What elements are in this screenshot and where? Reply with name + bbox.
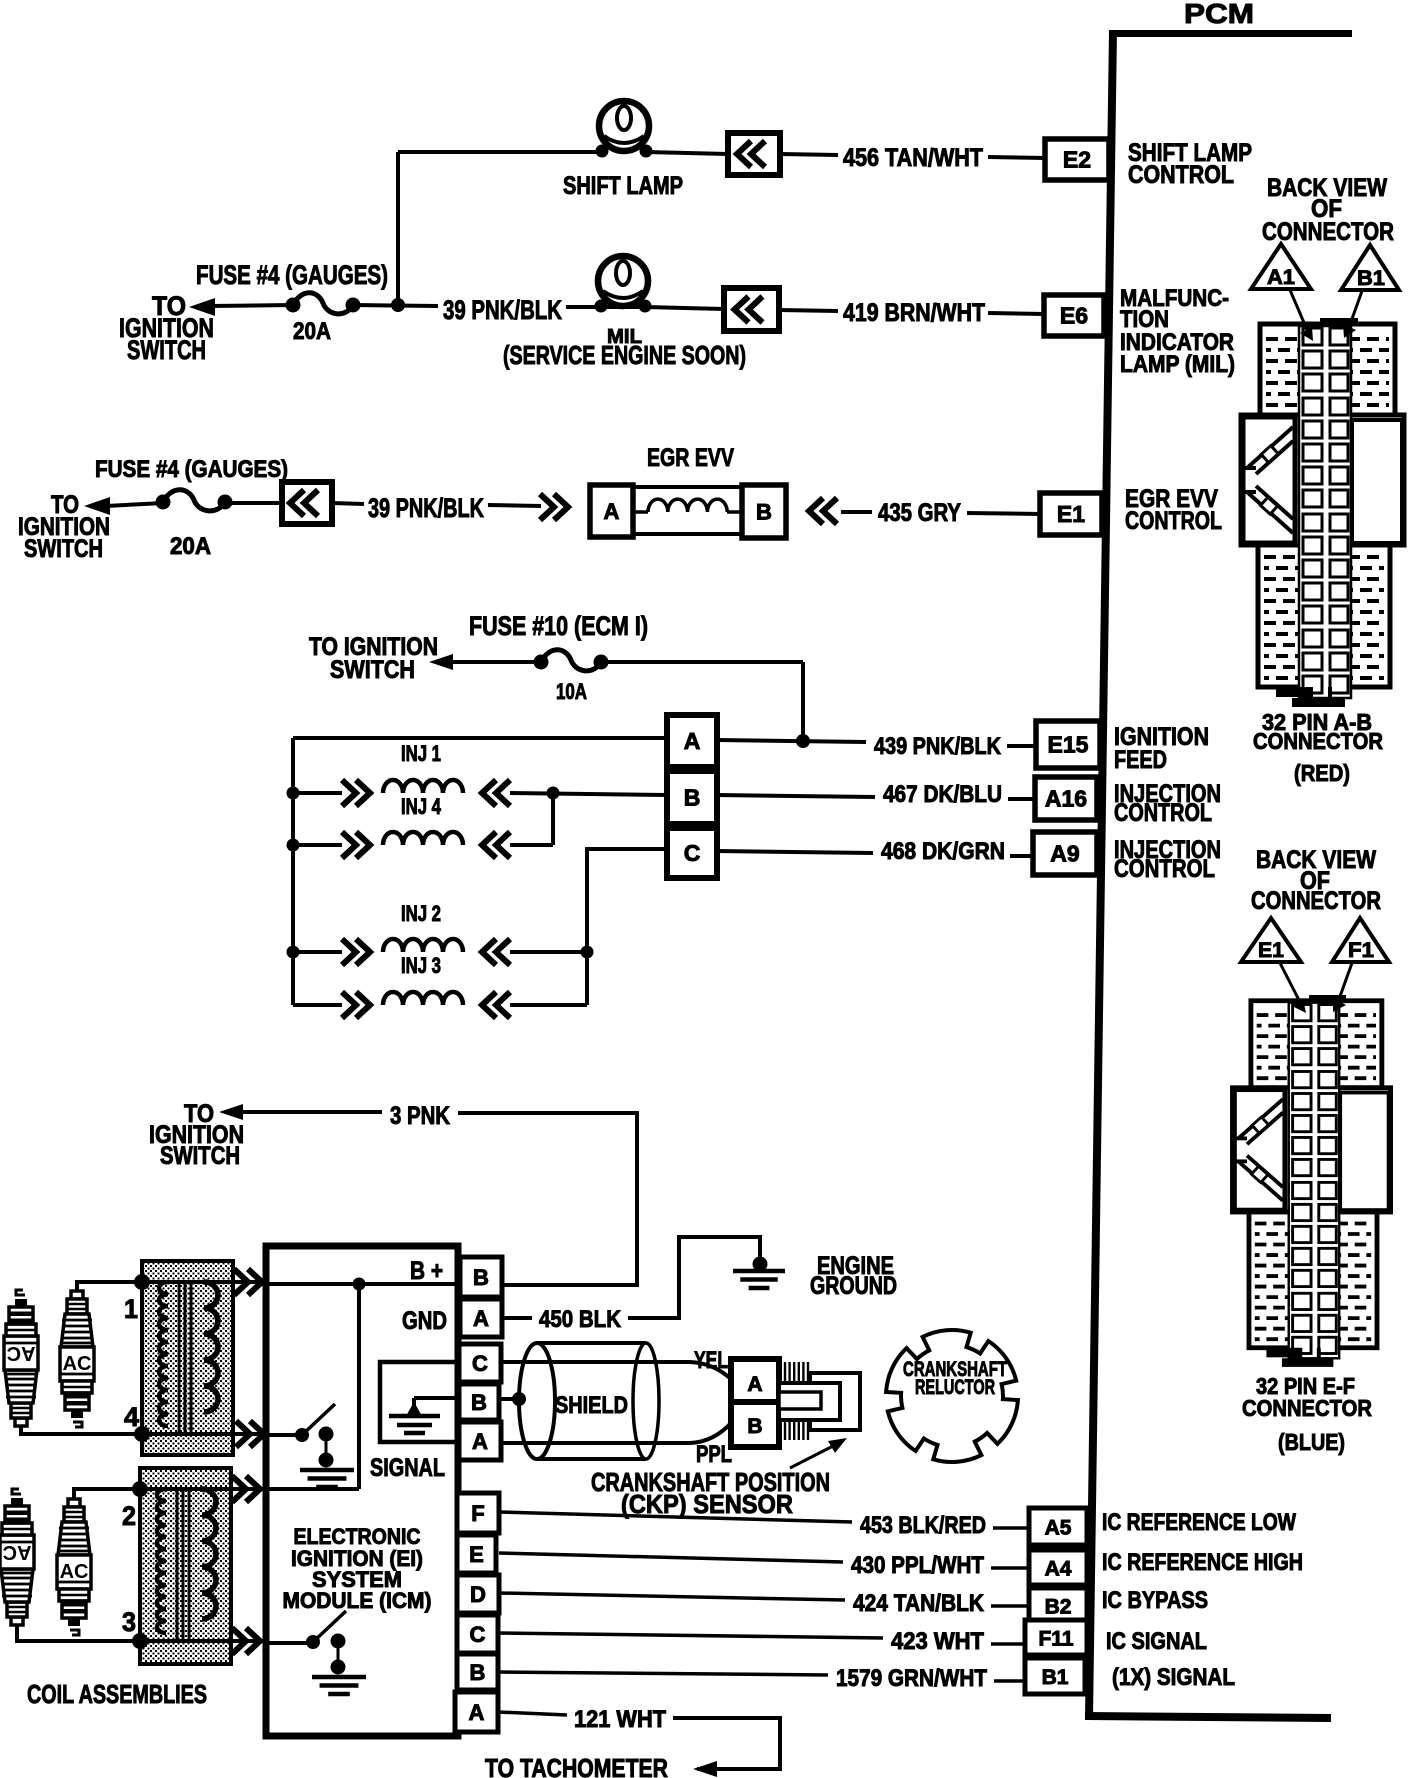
svg-text:B: B: [470, 1660, 486, 1685]
svg-text:20A: 20A: [170, 533, 211, 560]
inline connector coil2 top: [232, 1476, 260, 1502]
svg-text:A: A: [684, 728, 701, 754]
wire fuse to connector row2: [225, 501, 282, 505]
wire 121 WHT left: [498, 1712, 567, 1715]
wire arrow to fuse row2: [106, 503, 163, 506]
svg-text:D: D: [470, 1582, 486, 1607]
svg-text:E1: E1: [1057, 501, 1085, 527]
svg-text:A: A: [473, 1306, 489, 1331]
svg-text:YEL: YEL: [694, 1347, 728, 1374]
svg-text:IC REFERENCE HIGH: IC REFERENCE HIGH: [1102, 1549, 1303, 1576]
svg-text:FEED: FEED: [1114, 746, 1167, 774]
wire 467 DK/BLU: [717, 795, 875, 797]
wire 419 BRN/WHT left: [779, 310, 838, 311]
svg-text:A4: A4: [1045, 1558, 1072, 1581]
PCM top edge: [1109, 30, 1352, 37]
arrow to ignition switch row1: [189, 298, 215, 316]
wire C pin branch: [587, 849, 667, 1005]
ICM pin B mid: [459, 1384, 499, 1420]
svg-text:10A: 10A: [556, 679, 587, 704]
svg-text:C: C: [470, 1622, 486, 1647]
svg-text:468 DK/GRN: 468 DK/GRN: [881, 838, 1005, 865]
pin E6: [1044, 295, 1104, 336]
pin B2: [1029, 1588, 1087, 1623]
wire 435 GRY right: [967, 513, 1041, 514]
svg-text:B: B: [471, 1390, 487, 1415]
inline connector coil1 top: [234, 1269, 262, 1295]
wire fuse10 to drop: [601, 660, 803, 664]
svg-text:3 PNK: 3 PNK: [390, 1102, 450, 1130]
svg-text:20A: 20A: [293, 318, 331, 345]
ICM pin C mid: [459, 1344, 501, 1382]
svg-text:(BLUE): (BLUE): [1278, 1429, 1345, 1455]
wire 424 TAN/BLK: [499, 1593, 845, 1600]
wire 450 BLK to engine ground: [628, 1237, 760, 1318]
leader A1: [1290, 290, 1308, 332]
svg-text:467 DK/BLU: 467 DK/BLU: [883, 781, 1002, 808]
svg-text:CONNECTOR: CONNECTOR: [1253, 728, 1383, 754]
wire label to MIL: [566, 305, 602, 309]
svg-text:B1: B1: [1357, 267, 1385, 290]
svg-text:A16: A16: [1045, 786, 1087, 812]
svg-text:424 TAN/BLK: 424 TAN/BLK: [853, 1590, 985, 1617]
crankshaft reluctor: [886, 1330, 1018, 1462]
injector INJ2: [293, 950, 342, 954]
svg-text:IC REFERENCE LOW: IC REFERENCE LOW: [1102, 1509, 1296, 1536]
svg-text:E: E: [469, 1542, 484, 1567]
inline connector shift lamp: [728, 133, 780, 175]
spark plug 2: [60, 1291, 94, 1427]
pin B1: [1025, 1658, 1085, 1694]
svg-text:COIL ASSEMBLIES: COIL ASSEMBLIES: [27, 1679, 207, 1709]
svg-text:A: A: [604, 499, 620, 524]
wire 121 WHT to tachometer: [673, 1718, 780, 1769]
svg-text:453 BLK/RED: 453 BLK/RED: [860, 1512, 986, 1539]
svg-text:TO TACHOMETER: TO TACHOMETER: [485, 1753, 668, 1778]
wire INJ4 to INJ1 junction: [551, 793, 555, 845]
ICM pin A top: [460, 1299, 502, 1337]
junction fuse10 on 439: [717, 740, 866, 742]
svg-text:C: C: [472, 1351, 488, 1376]
svg-text:CONTROL: CONTROL: [1114, 799, 1212, 827]
svg-text:SWITCH: SWITCH: [330, 656, 415, 684]
svg-text:A1: A1: [1267, 266, 1295, 289]
callout triangle B1: [1341, 245, 1399, 290]
svg-text:PCM: PCM: [1184, 0, 1254, 29]
switch S1 to ground: [295, 1428, 309, 1442]
svg-text:E15: E15: [1048, 732, 1089, 758]
wire plug4 to coil2: [74, 1489, 140, 1500]
leader E1: [1280, 963, 1301, 1004]
svg-text:RELUCTOR: RELUCTOR: [915, 1376, 995, 1399]
svg-text:456 TAN/WHT: 456 TAN/WHT: [843, 144, 983, 172]
wire shield drain B pin: [499, 1397, 519, 1401]
injector INJ4: [293, 843, 342, 847]
injector INJ1: [293, 791, 342, 795]
wire 1579 GRN/WHT: [499, 1672, 828, 1675]
inline connector MIL: [724, 288, 779, 331]
pin A9: [1033, 832, 1097, 875]
svg-text:F11: F11: [1038, 1628, 1073, 1651]
callout triangle A1: [1251, 244, 1311, 289]
svg-text:INJ 4: INJ 4: [401, 794, 442, 819]
svg-text:(SERVICE ENGINE SOON): (SERVICE ENGINE SOON): [503, 340, 746, 370]
switch S2 to ground: [306, 1635, 320, 1649]
wire 423 WHT: [499, 1633, 883, 1638]
svg-text:INJ 3: INJ 3: [401, 953, 441, 978]
svg-text:3: 3: [122, 1607, 136, 1637]
wire YEL from C pin: [501, 1360, 690, 1364]
svg-text:B1: B1: [1042, 1666, 1069, 1689]
fuse F4 20A row2: [156, 495, 171, 510]
PCM boundary line: [1085, 30, 1117, 1717]
wire 468 DK/GRN: [717, 851, 873, 853]
pin F11: [1025, 1620, 1087, 1655]
PCM bottom edge: [1085, 1712, 1331, 1722]
svg-text:A: A: [747, 1373, 762, 1396]
svg-text:SHIFT LAMP: SHIFT LAMP: [563, 172, 683, 200]
wire 3PNK left: [241, 1110, 382, 1114]
svg-text:CONTROL: CONTROL: [1114, 855, 1215, 883]
svg-text:FUSE #4 (GAUGES): FUSE #4 (GAUGES): [196, 260, 388, 290]
junction node 39 PNK/BLK: [391, 298, 405, 312]
svg-text:121 WHT: 121 WHT: [574, 1706, 666, 1733]
wire arrow to fuse row1: [211, 305, 293, 306]
inline connector coil2 bottom: [232, 1628, 260, 1654]
svg-text:B2: B2: [1045, 1596, 1072, 1619]
svg-text:F1: F1: [1348, 939, 1374, 962]
spark plug 3: [0, 1489, 34, 1625]
ICM pin A bot: [455, 1692, 498, 1732]
svg-text:GND: GND: [402, 1307, 447, 1335]
svg-text:IC BYPASS: IC BYPASS: [1102, 1587, 1208, 1614]
svg-text:E6: E6: [1060, 303, 1088, 329]
wire B+ to coil2 primary: [357, 1284, 361, 1489]
wire 3PNK right: [458, 1113, 637, 1285]
pin A16: [1035, 777, 1097, 820]
svg-text:C: C: [684, 840, 701, 866]
wire plug2 to coil1: [77, 1282, 142, 1292]
injector INJ3: [293, 1003, 342, 1007]
svg-text:B +: B +: [410, 1257, 443, 1285]
callout triangle E1: [1241, 918, 1301, 962]
wire 430 PPL/WHT: [499, 1553, 843, 1562]
arrow to ignition switch row2: [84, 497, 110, 515]
injector connector B pin: [667, 771, 717, 824]
callout triangle F1: [1332, 918, 1389, 962]
inline connector coil1 bottom: [236, 1421, 264, 1447]
pin A4: [1029, 1550, 1087, 1585]
svg-text:419 BRN/WHT: 419 BRN/WHT: [843, 299, 985, 327]
engine ground: [753, 1257, 768, 1272]
wire shift lamp feed riser: [396, 152, 400, 305]
svg-text:E1: E1: [1258, 939, 1284, 962]
coil2 top wire: [140, 1487, 268, 1491]
injector connector A pin: [667, 715, 717, 767]
coil1 bottom wire: [142, 1432, 268, 1436]
svg-text:(RED): (RED): [1294, 760, 1350, 786]
wire PPL from A pin: [501, 1441, 690, 1445]
shield cylinder: [537, 1341, 646, 1345]
svg-text:430 PPL/WHT: 430 PPL/WHT: [851, 1552, 984, 1579]
left injector bus: [291, 738, 295, 1005]
svg-text:A: A: [469, 1700, 485, 1725]
pin A5: [1029, 1508, 1087, 1545]
coil assembly 1-4: [142, 1261, 233, 1455]
wire plug1 to coil1: [21, 1427, 142, 1434]
svg-text:GROUND: GROUND: [810, 1272, 897, 1300]
inline connector EGR right: [809, 498, 837, 524]
lamp MIL: [598, 256, 648, 306]
shift lamp LP1: [599, 101, 649, 151]
coil assembly 2-3: [140, 1468, 231, 1664]
ICM pin C bot: [457, 1615, 498, 1653]
wire riser to shift lamp: [398, 150, 602, 154]
CKP pointer arrow: [790, 1446, 833, 1468]
wire fuse to label row1: [353, 305, 438, 306]
svg-text:2: 2: [122, 1501, 136, 1531]
ICM pin E: [457, 1535, 496, 1573]
svg-text:B: B: [473, 1265, 489, 1290]
svg-text:LAMP (MIL): LAMP (MIL): [1120, 351, 1235, 378]
wire coil1 secondary return: [268, 1433, 302, 1437]
wire MIL to connector: [645, 307, 724, 309]
svg-text:439 PNK/BLK: 439 PNK/BLK: [874, 733, 1002, 760]
injector connector C pin: [667, 828, 717, 878]
wire label to EGR: [488, 505, 541, 506]
pin E1: [1040, 493, 1102, 535]
pin E15: [1036, 721, 1100, 768]
inline connector row2: [282, 482, 332, 524]
svg-text:B: B: [684, 785, 701, 811]
wire shift lamp to connector: [646, 152, 728, 154]
svg-text:CONTROL: CONTROL: [1125, 507, 1222, 535]
svg-text:CONNECTOR: CONNECTOR: [1242, 1395, 1372, 1421]
svg-text:CONTROL: CONTROL: [1128, 161, 1234, 189]
wire plug3 to coil2: [17, 1626, 140, 1641]
wire 456 TAN/WHT right: [988, 157, 1046, 158]
arrow to ignition switch fuse10: [429, 654, 453, 670]
wire A pin to left bus: [293, 736, 667, 740]
svg-text:SWITCH: SWITCH: [24, 535, 103, 563]
svg-text:MODULE (ICM): MODULE (ICM): [283, 1588, 432, 1613]
CKP sensor body: [810, 1373, 860, 1430]
svg-text:F: F: [471, 1501, 484, 1526]
CKP sensor connector: [731, 1359, 779, 1447]
svg-text:INJ 2: INJ 2: [401, 901, 441, 926]
svg-text:A: A: [472, 1429, 488, 1454]
svg-text:(1X) SIGNAL: (1X) SIGNAL: [1112, 1664, 1235, 1691]
ICM pin B bot: [457, 1654, 498, 1690]
svg-text:A5: A5: [1045, 1517, 1072, 1540]
wire 419 BRN/WHT right: [988, 313, 1044, 314]
wire 453 BLK/RED: [499, 1512, 852, 1522]
svg-text:39 PNK/BLK: 39 PNK/BLK: [368, 493, 484, 523]
wire EGR to 435 GRY: [841, 510, 872, 514]
connector 32 pin E-F: [1232, 995, 1390, 1367]
fuse F10 10A: [534, 655, 549, 670]
svg-text:SIGNAL: SIGNAL: [370, 1454, 445, 1482]
inline connector EGR left: [540, 494, 568, 520]
svg-text:423 WHT: 423 WHT: [891, 1628, 984, 1655]
svg-text:450 BLK: 450 BLK: [539, 1306, 622, 1333]
svg-text:SWITCH: SWITCH: [160, 1142, 240, 1170]
ICM pin F: [457, 1493, 499, 1533]
svg-text:SHIELD: SHIELD: [555, 1392, 628, 1419]
spark plug 4: [57, 1499, 91, 1635]
svg-text:FUSE #10 (ECM I): FUSE #10 (ECM I): [469, 611, 648, 641]
leader F1: [1338, 963, 1352, 1002]
coil2 bottom wire: [140, 1639, 268, 1643]
svg-text:B: B: [747, 1415, 762, 1438]
svg-text:FUSE #4 (GAUGES): FUSE #4 (GAUGES): [95, 456, 288, 483]
coil1 top wire: [142, 1280, 268, 1284]
ICM pin D: [457, 1575, 499, 1613]
svg-text:435 GRY: 435 GRY: [878, 499, 961, 527]
svg-text:EGR EVV: EGR EVV: [647, 444, 734, 472]
wire 456 TAN/WHT left: [780, 154, 838, 155]
wire arrow to fuse10: [451, 660, 541, 664]
wire fuse10 drop: [801, 662, 805, 740]
svg-text:4: 4: [124, 1402, 139, 1432]
fuse F4 20A row1: [286, 298, 301, 313]
wire coil2 secondary return: [268, 1641, 313, 1645]
svg-text:E2: E2: [1063, 147, 1091, 173]
module ICM outline: [266, 1246, 458, 1736]
connector 32 pin A-B: [1241, 318, 1404, 707]
ICM pin B top: [460, 1257, 502, 1297]
svg-text:SWITCH: SWITCH: [127, 335, 206, 365]
spark plug 1: [4, 1290, 38, 1426]
svg-text:A9: A9: [1050, 841, 1079, 867]
wire B+ bus: [268, 1282, 460, 1286]
ICM internal ground: [414, 1396, 459, 1400]
svg-text:INJ 1: INJ 1: [401, 741, 441, 766]
ICM pin A mid: [459, 1422, 501, 1460]
wire 450 BLK left: [500, 1316, 532, 1320]
svg-text:PPL: PPL: [696, 1441, 732, 1468]
svg-text:1: 1: [124, 1294, 138, 1324]
leader B1: [1348, 291, 1362, 330]
wire to 39 PNK/BLK row2: [332, 503, 364, 504]
pin E2: [1045, 139, 1109, 180]
svg-text:IC SIGNAL: IC SIGNAL: [1106, 1628, 1207, 1655]
svg-text:CONNECTOR: CONNECTOR: [1251, 887, 1381, 915]
svg-text:39 PNK/BLK: 39 PNK/BLK: [443, 295, 562, 325]
wire CKP signal loop: [380, 1362, 459, 1442]
svg-text:1579 GRN/WHT: 1579 GRN/WHT: [836, 1665, 987, 1692]
svg-text:B: B: [756, 500, 772, 525]
arrow to ignition switch 3PNK: [219, 1104, 243, 1120]
